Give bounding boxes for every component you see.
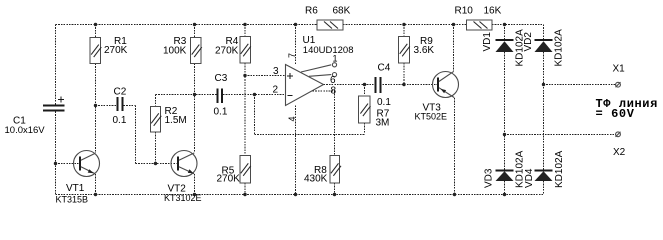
svg-text:X2: X2 [613,147,626,158]
svg-text:= 60V: = 60V [596,107,635,121]
svg-text:0.1: 0.1 [214,106,228,117]
svg-text:VT1: VT1 [66,183,85,194]
svg-text:10.0x16V: 10.0x16V [5,125,46,136]
svg-text:8: 8 [331,85,337,96]
svg-text:0.1: 0.1 [113,115,127,126]
svg-text:C3: C3 [215,73,228,84]
svg-text:VD2: VD2 [523,32,534,52]
svg-text:3: 3 [273,66,279,77]
svg-text:1.5M: 1.5M [165,115,187,126]
svg-text:3M: 3M [376,118,390,129]
svg-text:68K: 68K [333,6,351,17]
svg-text:X1: X1 [613,63,626,74]
svg-text:7: 7 [287,53,297,58]
svg-text:140UD1208: 140UD1208 [303,45,354,56]
svg-text:2: 2 [273,84,279,95]
svg-text:1: 1 [333,54,338,64]
svg-text:VD1: VD1 [482,32,493,52]
svg-text:270K: 270K [215,46,239,57]
svg-text:270K: 270K [104,45,128,56]
svg-text:16K: 16K [484,6,502,17]
svg-text:KT315B: KT315B [56,194,89,204]
svg-text:C4: C4 [378,63,391,74]
svg-text:0.1: 0.1 [377,97,391,108]
svg-text:3.6K: 3.6K [414,45,435,56]
svg-text:270K: 270K [217,173,241,184]
svg-text:100K: 100K [163,46,187,57]
svg-text:KD102A: KD102A [554,150,565,188]
svg-text:VD4: VD4 [524,168,535,188]
svg-text:KD102A: KD102A [554,29,565,67]
svg-text:VD3: VD3 [484,168,495,188]
svg-text:6: 6 [330,75,336,86]
svg-text:KT502E: KT502E [415,111,448,121]
svg-text:430K: 430K [304,173,328,184]
svg-text:C2: C2 [114,86,127,97]
svg-text:4: 4 [287,116,297,121]
svg-text:R10: R10 [455,6,474,17]
svg-text:KT3102E: KT3102E [164,193,202,203]
svg-text:R6: R6 [305,6,318,17]
